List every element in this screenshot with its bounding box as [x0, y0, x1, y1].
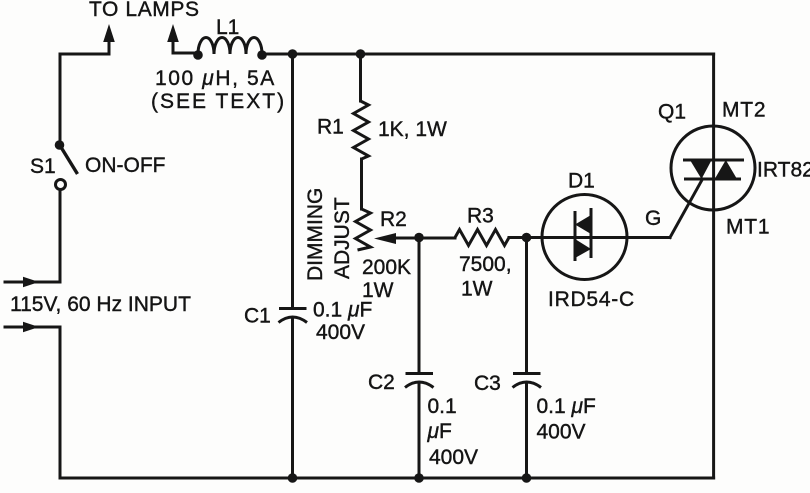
junction node R3/C3/D1 — [522, 233, 532, 243]
wire right rail MT2-MT1 through triac — [712, 54, 715, 478]
svg-text:400V: 400V — [537, 421, 586, 444]
svg-text:(SEE TEXT): (SEE TEXT) — [151, 90, 286, 113]
svg-text:IRD54-C: IRD54-C — [548, 288, 635, 311]
junction node top R1 — [356, 49, 366, 59]
svg-text:115V, 60 Hz INPUT: 115V, 60 Hz INPUT — [10, 293, 191, 316]
svg-text:R1: R1 — [317, 116, 344, 139]
svg-text:200K: 200K — [362, 256, 411, 279]
wire lamp arrow 2 shaft — [172, 33, 175, 53]
capacitor C2 — [405, 374, 434, 388]
svg-text:MT1: MT1 — [726, 216, 770, 239]
svg-text:ADJUST: ADJUST — [331, 197, 354, 279]
wire top-left corner to lamp arrow 1 — [60, 54, 109, 145]
svg-text:ON-OFF: ON-OFF — [85, 154, 165, 177]
svg-text:C1: C1 — [244, 305, 271, 328]
wiper arrow R2 — [374, 233, 396, 244]
wire gate diagonal — [670, 179, 703, 238]
arrow input 2 — [23, 322, 39, 332]
arrow input 1 — [23, 277, 39, 287]
capacitor C3 — [513, 374, 542, 388]
svg-text:400V: 400V — [316, 321, 365, 344]
svg-text:R3: R3 — [467, 205, 494, 228]
wire arrow2 to L1 — [173, 52, 198, 55]
svg-text:0.1 μF: 0.1 μF — [313, 299, 372, 322]
svg-text:L1: L1 — [216, 16, 239, 39]
svg-text:C3: C3 — [474, 372, 501, 395]
svg-text:S1: S1 — [30, 155, 56, 178]
capacitor C1 — [279, 309, 308, 323]
svg-text:MT2: MT2 — [722, 99, 766, 122]
triac Q1 — [671, 126, 755, 210]
wire R3 to D1 and through diac to gate corner — [509, 236, 670, 239]
svg-text:μF: μF — [427, 420, 452, 443]
switch S1 — [55, 140, 78, 282]
junction node top C1 — [288, 49, 298, 59]
svg-text:0.1 μF: 0.1 μF — [537, 395, 596, 418]
wire lamp arrow 1 shaft — [108, 33, 111, 54]
junction node bottom C2 — [414, 473, 424, 483]
svg-text:100 μH, 5A: 100 μH, 5A — [155, 67, 276, 90]
wire C2 branch upper — [418, 238, 421, 374]
resistor R2 (rheostat) — [356, 209, 371, 250]
svg-text:IRT82: IRT82 — [757, 159, 810, 182]
svg-text:1W: 1W — [461, 278, 493, 301]
wire C3 branch upper — [525, 238, 528, 374]
wire R1 top lead — [359, 54, 362, 101]
resistor R3 — [455, 230, 509, 246]
svg-text:0.1: 0.1 — [428, 395, 457, 418]
wire R1-R2 connecting lead — [360, 159, 363, 209]
wire bottom rail — [60, 477, 714, 480]
wire bottom-left up to input line 2 — [5, 327, 60, 478]
resistor R1 — [354, 101, 369, 159]
svg-text:400V: 400V — [429, 446, 478, 469]
svg-text:G: G — [645, 207, 661, 230]
wire C3 branch lower — [525, 383, 528, 478]
svg-text:R2: R2 — [380, 208, 407, 231]
svg-text:TO LAMPS: TO LAMPS — [89, 0, 200, 21]
junction node bottom C3 — [522, 473, 532, 483]
wire C1 branch upper — [291, 54, 294, 308]
wire input line 1 — [5, 281, 60, 284]
wire top rail L1 to right corner — [262, 53, 714, 56]
junction node bottom C1 — [288, 473, 298, 483]
wire C1 branch lower — [291, 319, 294, 478]
diac D1 — [542, 195, 627, 280]
arrow to lamps 2 — [167, 24, 179, 42]
svg-text:C2: C2 — [368, 371, 395, 394]
junction node wiper/C2 — [414, 233, 424, 243]
wire C2 branch lower — [418, 383, 421, 478]
svg-text:Q1: Q1 — [658, 101, 686, 124]
svg-text:1K, 1W: 1K, 1W — [378, 118, 447, 141]
arrow to lamps 1 — [103, 24, 115, 42]
svg-text:DIMMING: DIMMING — [304, 188, 327, 281]
wire wiper to R3 — [393, 237, 455, 240]
inductor L1 — [198, 38, 262, 54]
svg-text:D1: D1 — [568, 170, 595, 193]
svg-text:7500,: 7500, — [459, 253, 512, 276]
